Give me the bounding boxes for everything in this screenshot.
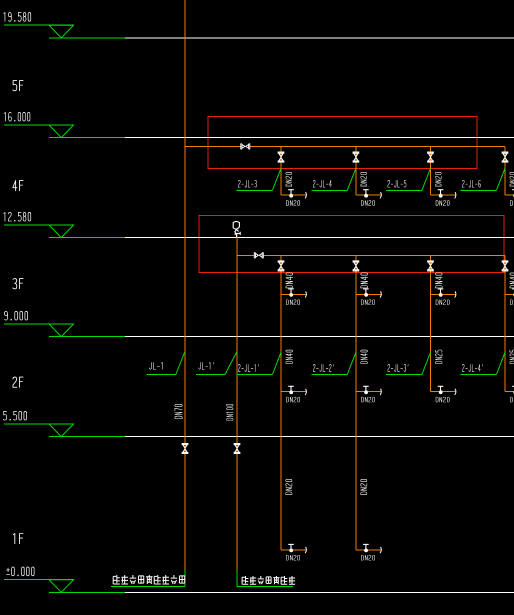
label DN20	[361, 200, 374, 205]
floor label 3F	[13, 279, 23, 289]
floor line 5.500	[125, 436, 514, 438]
label DN40 vertical	[361, 273, 368, 288]
elevation marker 9.000	[4, 311, 125, 336]
faucet 2F 2-JL-3'	[431, 386, 456, 395]
elevation marker +-0.000	[4, 567, 125, 592]
label 2-JL-6	[461, 168, 506, 190]
floor line 12.580	[125, 237, 514, 239]
valve 3F 2-JL-2'	[353, 261, 359, 271]
floor label 5F	[13, 81, 23, 91]
faucet 3F 2-JL-2'	[356, 289, 381, 298]
valve on JL-1	[182, 444, 188, 454]
label DN20	[361, 397, 374, 402]
label DN20	[287, 397, 300, 402]
elevation marker 19.580	[4, 13, 125, 38]
riser JL-1 lower green segment	[184, 570, 186, 587]
floor label 4F	[13, 181, 23, 191]
label DN20	[511, 200, 514, 205]
label DN100 on JL-1'	[227, 404, 234, 420]
valve 4F 2-JL-4	[353, 152, 359, 162]
label DN40 vertical	[286, 273, 293, 288]
floor line 16.000	[125, 137, 514, 139]
label DN20	[436, 300, 449, 305]
faucet 4F 2-JL-3	[281, 190, 306, 199]
pipe 3F header	[237, 254, 505, 256]
text 接市政给水管网	[242, 576, 295, 584]
label DN40 vertical	[361, 350, 368, 363]
label 2-JL-3'	[386, 352, 431, 374]
faucet 3F 2-JL-1'	[281, 289, 306, 298]
valve 4F 2-JL-3	[278, 152, 284, 162]
valve 4F 2-JL-6	[502, 152, 508, 162]
label 2-JL-3	[237, 168, 282, 190]
label DN40 vertical	[286, 350, 293, 363]
label DN20	[511, 397, 514, 402]
pipe drop 2-JL-1'	[280, 255, 282, 550]
valve 3F 2-JL-1'	[278, 261, 284, 271]
label DN20	[436, 397, 449, 402]
valve on 4F header	[241, 143, 250, 149]
floor line 19.580	[125, 37, 514, 39]
floor line 9.000	[125, 336, 514, 338]
floor line +-0.000	[125, 591, 514, 593]
pipe 4F drop 2-JL-6	[504, 146, 506, 195]
pipe drop 2-JL-2'	[355, 255, 357, 550]
label 2-JL-4	[311, 168, 356, 190]
valve 3F 2-JL-3'	[428, 261, 434, 271]
valve 4F 2-JL-5	[428, 152, 434, 162]
valve on JL-1'	[234, 444, 240, 454]
red box 3F zone	[199, 216, 504, 273]
valve 3F 2-JL-4'	[502, 261, 508, 271]
pipe 4F drop 2-JL-5	[430, 146, 432, 195]
label 2-JL-4'	[461, 352, 506, 374]
label DN25 vertical	[435, 350, 442, 364]
label DN20 vertical	[361, 172, 367, 186]
label DN20	[287, 300, 300, 305]
label DN70 on JL-1	[175, 404, 182, 418]
text 接生活加压给水管网	[113, 575, 185, 584]
pipe 4F drop 2-JL-3	[280, 146, 282, 195]
faucet 1F 2-JL-1'	[281, 544, 306, 553]
faucet 4F 2-JL-5	[431, 190, 456, 199]
elevation marker 12.580	[4, 212, 125, 237]
node connect-to-pressurized-supply	[111, 586, 185, 588]
label DN40 vertical	[510, 273, 514, 288]
label DN20	[287, 200, 300, 205]
label 2-JL-2'	[311, 352, 356, 374]
faucet 3F 2-JL-3'	[431, 289, 456, 298]
label DN20	[287, 555, 300, 560]
label 2-JL-1'	[237, 352, 282, 374]
elevation marker 16.000	[4, 112, 125, 137]
riser JL-1' lower green segment	[236, 570, 238, 587]
label JL-1	[147, 352, 185, 375]
label DN20 vertical 1F	[286, 479, 292, 494]
label DN20	[511, 300, 514, 305]
valve on 3F header	[254, 252, 263, 258]
faucet 2F 2-JL-4'	[505, 386, 514, 395]
faucet 4F 2-JL-6	[505, 190, 514, 199]
pipe 4F drop 2-JL-4	[355, 146, 357, 195]
riser JL-1' municipal main	[236, 234, 238, 571]
label DN20 vertical	[510, 172, 514, 186]
label DN20	[361, 300, 374, 305]
faucet 3F 2-JL-4'	[505, 289, 514, 298]
label 2-JL-5	[386, 168, 431, 190]
faucet 4F 2-JL-4	[356, 190, 381, 199]
faucet 1F 2-JL-2'	[356, 544, 381, 553]
faucet 2F 2-JL-1'	[281, 386, 306, 395]
automatic air vent on JL-1'	[233, 221, 240, 237]
label JL-1'	[196, 352, 237, 375]
label DN20 vertical 1F	[361, 479, 367, 494]
floor label 1F	[13, 533, 23, 543]
red box 4F zone	[208, 116, 477, 168]
label DN20 vertical	[286, 172, 292, 186]
node connect-to-municipal-supply	[237, 586, 293, 588]
pipe drop 2-JL-4'	[504, 255, 506, 391]
label DN20 vertical	[435, 172, 441, 186]
label DN40 vertical	[435, 273, 442, 288]
elevation marker 5.500	[3, 411, 125, 436]
faucet 2F 2-JL-2'	[356, 386, 381, 395]
label DN20	[361, 555, 374, 560]
floor label 2F	[13, 377, 23, 387]
label DN25 vertical	[510, 350, 514, 364]
pipe drop 2-JL-3'	[430, 255, 432, 391]
riser JL-1 pressurized main	[184, 0, 186, 570]
label DN20	[436, 200, 449, 205]
pipe 4F header	[185, 145, 505, 147]
